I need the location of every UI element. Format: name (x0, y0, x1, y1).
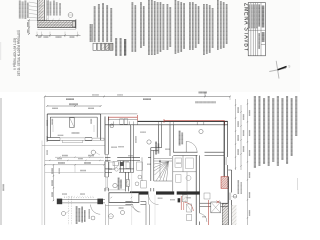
red marking line on top wall (109, 115, 225, 126)
legend caption columns (rotated) (90, 3, 113, 42)
interior wall x196 vertical (196, 155, 199, 225)
yard line and ramp bottom left of house (105, 202, 139, 225)
main building left wall (105, 117, 108, 192)
interior wall y152 technical room (173, 152, 224, 155)
wall right of stairs (172, 156, 174, 191)
interior wall y170 and pantry room (105, 162, 134, 191)
scattered dimension texts in plan (47, 94, 207, 217)
detail: left vertical dimension (27, 19, 38, 35)
north arrow (269, 61, 290, 79)
fixtures left of stairs (wc) (135, 175, 146, 188)
grey hatched wall section bottom right (222, 204, 236, 226)
wall x142 and fixtures (105, 157, 187, 204)
upper yard dimension chains (45, 155, 104, 161)
detail: bottom dimension chain (36, 32, 81, 38)
garage walls (47, 114, 104, 143)
fence with pillars (57, 199, 105, 205)
door arc technical room (186, 141, 197, 152)
red markings bottom right bathroom (200, 200, 220, 225)
house south wall thick y191 (130, 191, 200, 194)
main building right wall upper (224, 121, 227, 176)
drawing caption DET.01 (rotated) (12, 30, 21, 76)
legend item labels below-right (115, 38, 126, 56)
interior wall y157 left cluster (105, 157, 151, 160)
technical room left wall (170, 125, 173, 156)
detail: lintel course horizontal band (38, 19, 76, 29)
detail: annotations above lintel (45, 1, 61, 21)
circle symbols mid-plan (91, 150, 100, 155)
title block table (248, 3, 265, 56)
dotted tick row above fence (64, 196, 95, 198)
title text ZMENA STAVBY (rotated) (243, 3, 252, 52)
notes block right (rotated text) (254, 96, 298, 168)
yard wall band (109, 193, 139, 203)
corridor walls below y201 (125, 202, 149, 225)
right dimension chains (235, 99, 250, 225)
small rooms right of stairs (173, 155, 196, 191)
pavement edge below garage (42, 144, 105, 146)
shaft rectangle (126, 180, 129, 187)
small labels above fence (59, 168, 86, 195)
site boundary lines (42, 97, 45, 226)
garage dimension (46, 103, 101, 109)
text above plan right part (195, 101, 216, 103)
overall top dimension (44, 92, 231, 101)
small scale note left (3, 184, 5, 191)
wall x120 dark segment (120, 161, 123, 173)
yard dimension chains (44, 162, 104, 201)
main building right wall lower (228, 170, 237, 225)
room label living room (147, 140, 159, 155)
bottom-left annotations (61, 196, 124, 225)
bottom rooms fixtures and red marks (178, 196, 194, 221)
detail: reference circle (68, 13, 73, 18)
room label pantry (113, 178, 122, 190)
circle symbol near fence (91, 216, 95, 220)
interior wall x130 (122, 125, 137, 173)
centre axis lines (132, 126, 155, 225)
svg-text:S: S (288, 65, 290, 69)
garage chimney block (70, 118, 75, 128)
legend swatches (93, 43, 113, 50)
scan edge shadow (0, 42, 2, 225)
general notes text columns (rotated) (132, 0, 228, 55)
bathroom bottom right with shower (204, 193, 221, 213)
garage inner dimension texts (52, 119, 94, 136)
faint vertical mark bottom right (297, 178, 299, 190)
main building top wall (101, 114, 228, 125)
red hatched infill block (221, 177, 228, 189)
detail: wall section vertical band (38, 0, 49, 28)
living room right wall (upper jog) (151, 125, 162, 151)
stair enclosure left wall (151, 148, 154, 192)
staircase (winder) (154, 159, 172, 181)
bathroom fixtures left cluster (109, 162, 143, 172)
svg-text:V PŘEKLADU (M 1:25): V PŘEKLADU (M 1:25) (12, 38, 17, 70)
detail: leader annotations left (19, 1, 38, 20)
room label technical room (179, 129, 203, 145)
circle symbol at top wall (110, 124, 114, 128)
interior wall y203 right (200, 203, 229, 206)
